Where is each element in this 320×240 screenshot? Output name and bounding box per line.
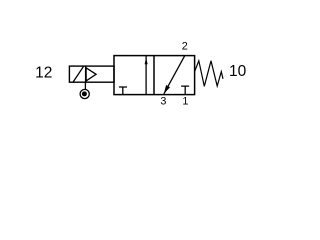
svg-text:12: 12 <box>35 64 52 81</box>
solenoid box divider <box>85 66 87 82</box>
indicator circle <box>80 89 89 98</box>
valve body outline <box>114 56 195 95</box>
svg-text:10: 10 <box>229 63 247 80</box>
flow path line (left square, 1 to 2) <box>145 56 147 95</box>
svg-text:1: 1 <box>182 95 188 107</box>
wire stub to indicator <box>84 82 86 89</box>
blocked port T (right square, port 1) <box>181 86 189 95</box>
return spring <box>195 61 223 87</box>
solenoid coil box <box>69 66 114 82</box>
coil diagonal <box>73 66 83 82</box>
flow arrowhead up (left square) <box>145 58 148 65</box>
svg-text:3: 3 <box>160 95 166 107</box>
blocked port T (left square, port 3) <box>119 87 127 95</box>
indicator dot <box>82 91 87 96</box>
pilot triangle <box>86 68 96 81</box>
valve body divider <box>153 56 155 95</box>
svg-text:2: 2 <box>182 41 188 53</box>
flow arrowhead down-left (right square) <box>164 85 170 94</box>
flow path diagonal (right square, 2 to 3) <box>164 56 185 94</box>
